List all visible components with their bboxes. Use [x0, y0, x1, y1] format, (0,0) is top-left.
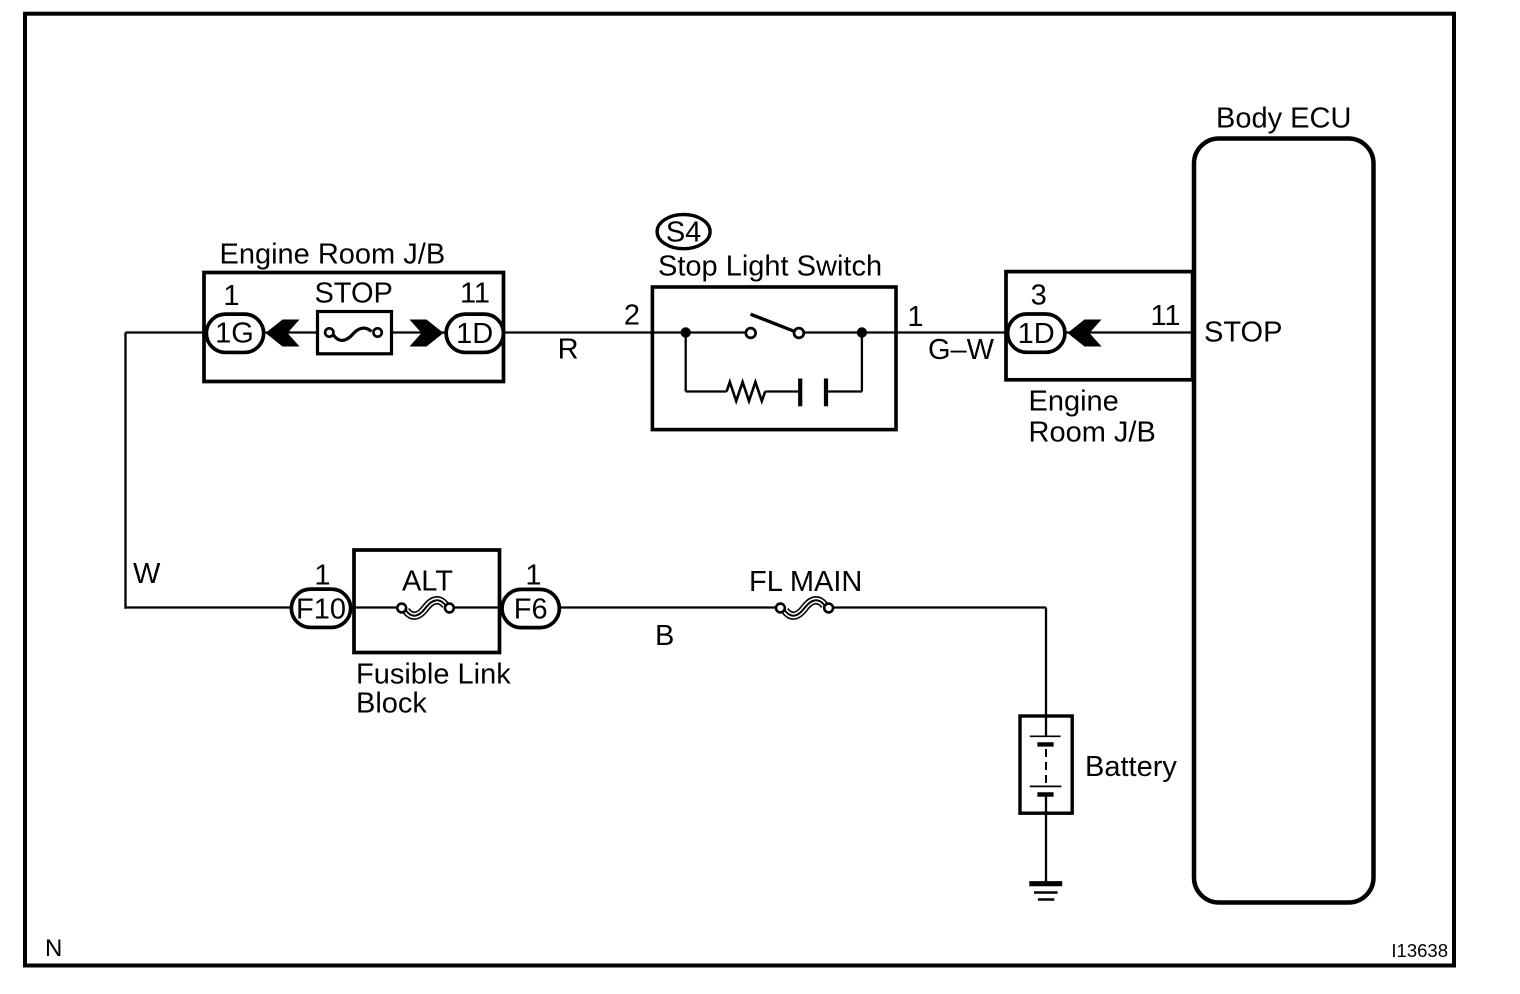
fuse STOP: [314, 278, 392, 354]
connector arrow (right): [410, 320, 444, 347]
svg-text:R: R: [558, 334, 579, 366]
svg-text:I13638: I13638: [1391, 940, 1448, 961]
wire: [126, 331, 330, 333]
svg-text:B: B: [655, 620, 674, 652]
svg-text:Engine: Engine: [1029, 386, 1119, 418]
wire branch right vertical: [861, 333, 863, 392]
label Fusible Link Block: [356, 659, 511, 720]
wire W vertical rail: [124, 333, 126, 609]
wire branch left vertical: [685, 333, 687, 392]
fusible link FL MAIN: [749, 566, 862, 616]
battery: [1020, 716, 1072, 813]
connector terminal 1D (right): [1008, 314, 1065, 352]
ground: [1029, 884, 1062, 900]
svg-text:3: 3: [1031, 280, 1047, 312]
svg-text:1: 1: [525, 560, 541, 592]
wire to battery: [1045, 608, 1047, 717]
connector terminal 1G: [206, 314, 263, 352]
svg-text:1D: 1D: [1018, 318, 1055, 350]
svg-text:11: 11: [1150, 300, 1180, 332]
svg-text:S4: S4: [666, 217, 701, 249]
wire: [826, 390, 862, 392]
svg-text:2: 2: [624, 300, 640, 332]
svg-text:Body ECU: Body ECU: [1216, 103, 1351, 135]
svg-text:Fusible Link: Fusible Link: [356, 659, 511, 691]
connector arrow (left, right J/B): [1068, 320, 1102, 347]
switch contact left: [746, 328, 756, 338]
svg-text:ALT: ALT: [402, 566, 453, 598]
resistor: [727, 382, 766, 401]
junction block Engine Room J/B (right): [1006, 272, 1193, 380]
Body ECU: [1194, 103, 1374, 903]
svg-text:11: 11: [460, 278, 490, 310]
svg-text:FL MAIN: FL MAIN: [749, 566, 862, 598]
svg-text:1: 1: [314, 560, 330, 592]
terminal F10: [291, 589, 350, 627]
wire battery to ground: [1045, 813, 1047, 883]
connector terminal 1D: [446, 314, 503, 352]
capacitor: [800, 379, 826, 407]
node junction left: [681, 327, 691, 337]
svg-text:F10: F10: [296, 593, 346, 625]
wire: [378, 331, 751, 333]
label Engine Room J/B (right): [1029, 386, 1156, 449]
svg-text:F6: F6: [514, 594, 548, 626]
wire: [449, 606, 780, 608]
svg-text:1D: 1D: [456, 318, 493, 350]
svg-text:1: 1: [907, 301, 923, 333]
component code S4: [657, 215, 710, 249]
wire: [799, 331, 1193, 333]
svg-text:1: 1: [223, 280, 239, 312]
svg-text:G–W: G–W: [928, 334, 995, 366]
svg-text:Battery: Battery: [1085, 751, 1177, 783]
switch contact right: [794, 328, 804, 338]
svg-text:N: N: [45, 935, 62, 962]
junction block Engine Room J/B (left): [204, 273, 504, 382]
connector arrow (left): [266, 320, 300, 347]
terminal F6: [502, 589, 559, 627]
fusible link ALT element: [397, 600, 454, 615]
wire: [686, 390, 727, 392]
node junction right: [857, 327, 867, 337]
svg-text:Block: Block: [356, 688, 427, 720]
stop light switch S4 box: [652, 287, 896, 430]
svg-text:Room J/B: Room J/B: [1029, 417, 1156, 449]
wire bottom rail: [126, 606, 402, 608]
svg-text:W: W: [133, 558, 161, 590]
wire: [829, 606, 1046, 608]
svg-text:STOP: STOP: [314, 278, 392, 310]
wire: [765, 390, 798, 392]
svg-text:Stop Light Switch: Stop Light Switch: [658, 251, 882, 283]
svg-text:Engine Room J/B: Engine Room J/B: [220, 239, 446, 271]
svg-text:STOP: STOP: [1204, 317, 1282, 349]
svg-text:1G: 1G: [215, 318, 254, 350]
fusible link block box: [354, 550, 500, 653]
switch lever: [751, 314, 794, 331]
